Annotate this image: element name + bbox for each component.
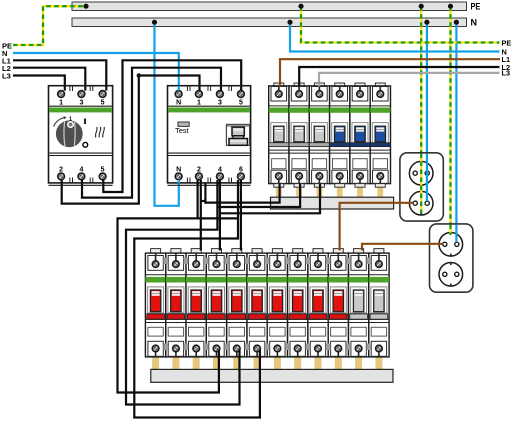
label PE busbar <box>471 2 481 12</box>
RCD Test label <box>175 126 190 135</box>
svg-text:L3: L3 <box>2 72 11 81</box>
busbar below bottom MCB row <box>151 369 393 382</box>
PE busbar junction dots <box>83 4 453 9</box>
wire MCB F1 output <box>205 183 279 202</box>
label N right <box>502 47 507 56</box>
MCB Q11 (bottom row) <box>349 249 369 357</box>
contactor terminal 5 <box>99 91 106 107</box>
wire RCD bottom N to N busbar <box>155 22 179 206</box>
svg-text:1: 1 <box>59 99 63 106</box>
contactor terminal 6 <box>99 166 106 180</box>
wire RCD 2 branch to MCB Q4 bottom <box>118 180 219 393</box>
RCD body <box>168 86 251 186</box>
MCB Q9 (bottom row) <box>308 249 328 357</box>
RCD terminal N top <box>175 91 182 107</box>
N busbar junction dots <box>152 20 459 25</box>
label L2 left <box>2 64 11 73</box>
MCB Q1 (bottom row) <box>145 249 165 357</box>
MCB F2 (top row) <box>289 83 309 187</box>
wire stubs at RCD terminals <box>179 86 241 183</box>
wire N to socket 1 (over socket) <box>426 154 428 202</box>
wire L3 right to MCB3 top <box>319 73 500 87</box>
wire stubs into MCB F1-F3 clips <box>280 83 319 87</box>
svg-text:5: 5 <box>101 99 105 106</box>
contactor K1 body <box>49 86 113 186</box>
MCB F5 (top row) <box>350 83 370 187</box>
wire MCB F2 output <box>217 184 300 207</box>
wire N busbar to right N label <box>290 22 500 51</box>
MCB F3 (top row) <box>309 83 329 187</box>
label PE right <box>502 38 512 47</box>
MCB F4 (top row) <box>330 83 350 187</box>
contactor rotary knob <box>54 116 88 147</box>
svg-text:1: 1 <box>69 117 72 123</box>
label L3 right <box>502 69 511 78</box>
DIN clip marks bottom row <box>163 258 371 351</box>
MCB row bottom: cream links to busbar <box>152 357 382 370</box>
RCD terminal 2 <box>196 166 203 180</box>
wire PE to socket 1 (over socket) <box>420 154 422 214</box>
PE busbar <box>72 2 467 11</box>
svg-text:L3: L3 <box>502 69 511 78</box>
contactor terminal 1 <box>58 91 65 107</box>
socket outlet X1 <box>400 153 443 221</box>
svg-text:3: 3 <box>218 99 222 106</box>
MCB Q12 (bottom row) <box>369 249 389 357</box>
wire RCD 4 to MCB Q4 top <box>219 180 221 251</box>
contactor terminal 2 <box>58 166 65 180</box>
junction dot <box>137 73 141 77</box>
RCD terminal 4 <box>217 166 224 180</box>
label L3 left <box>2 72 11 81</box>
wire PE left feed to PE busbar <box>13 6 86 45</box>
svg-text:N: N <box>176 99 181 106</box>
N busbar <box>72 18 467 27</box>
contactor terminal 4 <box>78 166 85 180</box>
wire brown socket2 to MCB Q11 <box>362 244 443 251</box>
wire PE busbar to socket 2 <box>449 6 451 235</box>
wire L1 to contactor terminal 5 <box>13 60 106 86</box>
RCD terminal 1 <box>196 91 203 107</box>
MCB Q10 (bottom row) <box>328 249 348 357</box>
MCB Q2 (bottom row) <box>166 249 186 357</box>
svg-text:1: 1 <box>197 99 201 106</box>
wire RCD 6 to MCB Q5 top <box>240 180 242 251</box>
MCB F1 (top row) <box>269 83 289 187</box>
MCB Q6 (bottom row) <box>247 249 267 357</box>
wire brown socket1 to MCB Q10 <box>340 203 414 251</box>
wire L2 right to MCB2 top <box>299 67 499 86</box>
wire link to RCD2 output <box>201 200 206 202</box>
label L1 left <box>2 57 11 66</box>
contactor contacts symbol <box>96 127 105 137</box>
svg-text:PE: PE <box>502 38 512 47</box>
RCD terminal 3 <box>217 91 224 107</box>
svg-text:PE: PE <box>471 2 481 12</box>
svg-text:5: 5 <box>239 99 243 106</box>
wire RCD 4 branch to MCB Q5 bottom <box>126 180 240 405</box>
wire L1 right to MCB1 top <box>280 59 500 86</box>
wire N left feed to RCD top N <box>13 53 179 86</box>
RCD terminal N bottom <box>175 166 182 180</box>
wire N busbar to socket 2 <box>455 22 457 244</box>
svg-text:Test: Test <box>175 126 190 135</box>
MCB row top-right: cream links to busbar <box>276 184 383 198</box>
wire contactor 4 to RCD terminal 3 <box>82 68 221 198</box>
wire N to socket 2 (over socket) <box>455 225 457 243</box>
MCB Q3 (bottom row) <box>186 249 206 357</box>
wire N busbar to socket 1 <box>426 22 428 202</box>
label PE left <box>2 42 12 51</box>
MCB F6 (top row) <box>370 83 390 187</box>
wire link RCD2 branch to RCD6 <box>198 217 238 219</box>
wire PE busbar to socket 1 <box>420 6 422 213</box>
MCB Q8 (bottom row) <box>288 249 308 357</box>
MCB Q4 (bottom row) <box>206 249 226 357</box>
wire MCB F3 output <box>220 184 320 214</box>
wire contactor 2 to RCD terminal 1 <box>62 76 200 204</box>
MCB Q7 (bottom row) <box>267 249 287 357</box>
wire contactor 6 to RCD terminal 5 <box>103 60 241 192</box>
wire stubs at contactor terminals <box>62 86 107 183</box>
socket outlet X2 <box>430 224 473 292</box>
wire RCD 2 to MCB Q3 top <box>200 180 202 251</box>
label L2 right <box>502 63 511 72</box>
busbar below top-right MCB row <box>271 197 394 209</box>
label L1 right <box>502 55 511 64</box>
RCD terminal 6 <box>238 166 245 180</box>
RCD toggle switch <box>226 124 249 145</box>
label N busbar <box>471 18 478 28</box>
wire PE to socket 2 (over socket) <box>449 225 451 236</box>
RCD test button <box>178 122 189 126</box>
svg-text:N: N <box>471 18 478 28</box>
contactor terminal 3 <box>78 91 85 107</box>
wire PE busbar to right PE label <box>301 6 500 42</box>
wire L3 to contactor terminal 1 <box>13 76 65 87</box>
wire L2 to contactor terminal 3 <box>13 68 85 87</box>
MCB Q5 (bottom row) <box>227 249 247 357</box>
label N left <box>2 49 7 58</box>
RCD terminal 5 <box>238 91 245 107</box>
wire RCD 6 branch to MCB Q6 bottom <box>134 180 260 418</box>
svg-text:3: 3 <box>79 99 83 106</box>
